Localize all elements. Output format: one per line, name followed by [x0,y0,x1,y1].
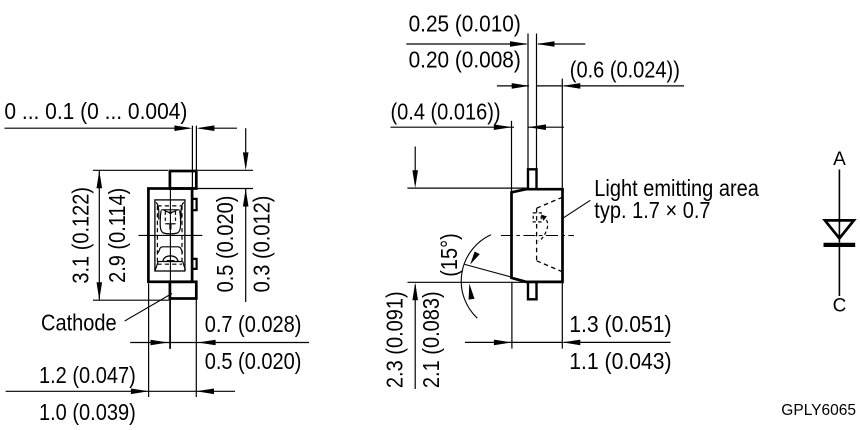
dimension 0...0.1: line and arrows [5,126,238,189]
cathode leader line [125,294,172,322]
front view: lower kerf right [183,262,186,271]
dimension 1.3/1.1: line with outside arrows [465,282,671,349]
svg-text:0.20 (0.008): 0.20 (0.008) [409,47,521,73]
side view: angle arc arrowhead upper [470,252,480,265]
svg-text:Cathode: Cathode [41,309,117,336]
svg-text:(15°): (15°) [436,233,463,277]
side view: hook arrowhead [541,215,547,221]
front view: cavity top corner curves [156,202,159,219]
front view: top shelf line [161,209,179,211]
svg-text:0.7 (0.028): 0.7 (0.028) [205,310,302,337]
dimension 2.3/2.1: vertical line with outside arrows [407,147,527,390]
svg-text:3.1 (0.122): 3.1 (0.122) [67,187,94,284]
svg-text:(0.6 (0.024)): (0.6 (0.024)) [570,56,680,83]
front view: chip die mark [167,212,173,215]
front view: dashed inner contour [157,206,182,264]
front view: upper right notch [192,199,197,210]
dimension 0.25/0.20: line and arrows [406,34,585,170]
svg-text:1.1 (0.043): 1.1 (0.043) [569,348,671,374]
front view: package body outline [148,189,192,282]
front view: dome base line [158,261,183,263]
side view: dashed cavity top diagonal [537,198,562,209]
front view: chip bottom line [165,223,175,225]
svg-text:0 ... 0.1 (0 ... 0.004): 0 ... 0.1 (0 ... 0.004) [4,98,187,124]
svg-text:GPLY6065: GPLY6065 [781,402,856,419]
svg-text:(0.4 (0.016)): (0.4 (0.016)) [391,98,501,125]
dimension 0.5/0.3: vertical line with outside arrows [192,128,253,302]
svg-text:2.3 (0.091): 2.3 (0.091) [381,291,408,388]
side view: dashed chip box [533,213,541,222]
front view: reflector window [155,200,185,271]
svg-text:A: A [833,149,846,170]
svg-text:0.25 (0.010): 0.25 (0.010) [409,10,521,36]
front view: lower dome [163,256,178,262]
front view: reflector cup [160,211,180,234]
svg-text:2.1 (0.083): 2.1 (0.083) [418,291,445,388]
front view: horizontal centerline [139,234,203,236]
front view: vertical centerline [169,173,171,349]
front view: lower mound profile [158,247,182,253]
front view: chip dashed box [165,212,175,224]
side view: package body outline with chamfers [512,189,563,282]
dimension 3.1/2.9: vertical line with arrows [93,170,169,300]
side view: 15 degree reference line [465,264,527,281]
side view: angle arc [461,235,491,318]
front view: lower kerf left [155,262,158,271]
side view: light emitting area leader [563,200,591,218]
dimension 0.7/0.5: line with outside arrows [130,300,309,398]
side view: dashed tilt hook curve [539,216,548,242]
dimension 0.6: line and arrows [497,79,684,190]
svg-text:0.5 (0.020): 0.5 (0.020) [205,348,302,375]
svg-text:C: C [833,295,847,316]
diode symbol: triangle [825,220,854,238]
svg-text:1.3 (0.051): 1.3 (0.051) [569,311,671,337]
svg-text:0.3 (0.012): 0.3 (0.012) [248,196,275,293]
front view: bottom lead tab [170,282,196,299]
diode symbol: anode wire [838,170,840,243]
side view: bottom lead [528,282,537,299]
side view: dash-dot centerline [501,235,574,237]
front view: dome cross tick [167,260,175,262]
svg-text:0.5 (0.020): 0.5 (0.020) [211,196,238,293]
svg-text:1.2 (0.047): 1.2 (0.047) [39,362,136,389]
diode symbol: cathode bar [824,243,856,247]
svg-text:1.0 (0.039): 1.0 (0.039) [39,399,136,426]
diode symbol: cathode wire [838,244,840,296]
front view: top lead tab [170,171,196,189]
svg-text:2.9 (0.114): 2.9 (0.114) [104,188,131,283]
front view: bond wire stub [169,224,171,230]
side view: top lead [528,169,537,189]
front view: lower right notch [192,259,197,269]
side view: dashed cavity back wall [536,208,538,261]
side view: dashed cavity bottom diagonal [537,261,562,272]
svg-text:typ. 1.7 × 0.7: typ. 1.7 × 0.7 [594,197,710,224]
dimension 0.4: line and arrows [391,121,565,193]
front view: chip arc under shelf [164,210,178,213]
dimension 1.2/1.0: line with outside arrows [6,284,235,398]
side view: angle arc arrowhead lower [469,284,475,300]
